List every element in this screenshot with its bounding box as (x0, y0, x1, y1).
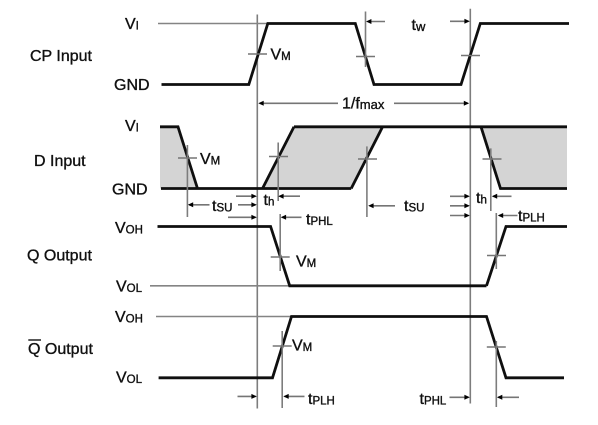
svg-text:GND: GND (114, 77, 150, 94)
VM cross bar Qbar rise (273, 345, 292, 347)
tPLH2 arrows (450, 213, 518, 218)
VM cross bar D fall1 (178, 157, 197, 159)
tSU1 arrows (188, 202, 257, 207)
tick Qbar rise VM (tPLH right) (281, 331, 283, 408)
gray don't-care region D input middle (263, 127, 383, 189)
tick D fall2 VM (th2 right) (490, 148, 492, 211)
1/fmax dimension arrows (258, 101, 469, 106)
th1 arrows (236, 194, 300, 199)
tick D fall1 VM (tSU left) (186, 145, 188, 217)
tick Q fall VM (tPHL right) (279, 214, 281, 271)
tick Qbar fall VM (tPHL2 right) (495, 341, 497, 407)
gray don't-care region D input start (160, 127, 198, 189)
VM cross bar D fall2 (483, 158, 502, 160)
tPHL1 arrows (228, 215, 302, 220)
svg-text:Q Output: Q Output (27, 248, 92, 265)
leader line VOH (Qbar) (156, 316, 291, 318)
tPLH1 bottom arrows (238, 394, 305, 399)
tw left arrow (366, 19, 385, 24)
tPHL2 bottom arrows (450, 395, 520, 400)
leader line VI (CP) (158, 23, 268, 25)
VM cross bar Qbar fall (487, 346, 506, 348)
VM cross bar CP rise1 (248, 53, 267, 55)
svg-text:GND: GND (112, 181, 148, 198)
Qbar output waveform (159, 317, 564, 378)
tick CP falling VM (tw left) (365, 12, 367, 68)
Q output waveform (158, 227, 568, 286)
th2 arrows (450, 194, 512, 199)
svg-text:D Input: D Input (34, 153, 86, 170)
tick D mid fall VM (tSU2 left) (366, 146, 368, 217)
D input waveform (160, 127, 567, 189)
svg-text:Q Output: Q Output (28, 341, 93, 358)
gray don't-care region D input right (481, 127, 567, 189)
CP input waveform (162, 24, 570, 85)
VM cross bar Q fall (271, 256, 290, 258)
VM cross bar CP rise2 (461, 55, 480, 57)
overbar on Q (28, 339, 41, 341)
tSU2 arrows (368, 203, 470, 208)
VM cross bar D mid (358, 158, 377, 160)
VM cross bar D rise1 (269, 156, 288, 158)
tw right arrow (450, 19, 470, 24)
svg-text:CP Input: CP Input (30, 48, 93, 65)
svg-text:1/fmax: 1/fmax (342, 96, 385, 113)
reference line 1 (first CP rising edge) (256, 15, 258, 409)
tick D rise1 VM (th right) (277, 143, 279, 202)
reference line 2 (second CP rising edge) (469, 9, 471, 404)
tick Q rise VM (tPLH2 right) (495, 213, 497, 269)
svg-text:tw: tw (412, 17, 426, 34)
VM cross bar Q rise (487, 255, 506, 257)
VM cross bar CP fall (356, 56, 375, 58)
leader line VOL (Q) (150, 285, 290, 287)
